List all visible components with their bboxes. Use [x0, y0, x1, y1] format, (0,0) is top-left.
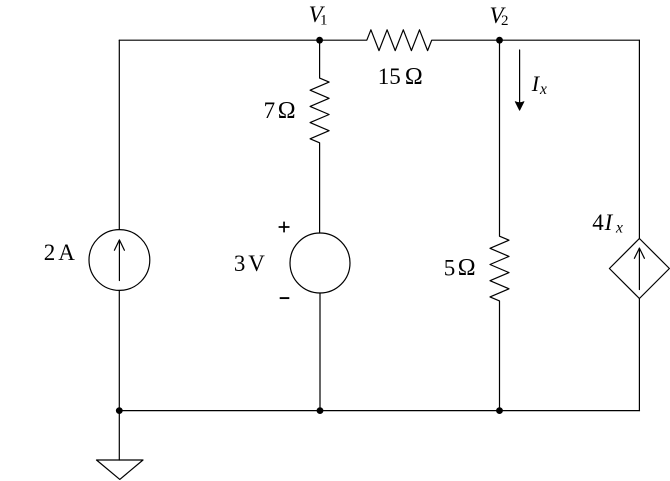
svg-text:x: x — [615, 220, 623, 237]
svg-text:Ω: Ω — [278, 98, 296, 124]
svg-text:4: 4 — [592, 210, 604, 235]
svg-text:Ω: Ω — [458, 255, 476, 281]
svg-text:x: x — [539, 81, 547, 98]
svg-text:I: I — [604, 210, 614, 235]
svg-text:1: 1 — [320, 13, 328, 29]
svg-text:2: 2 — [44, 240, 56, 265]
svg-text:V: V — [248, 251, 265, 276]
svg-text:3: 3 — [234, 251, 246, 276]
svg-text:Ω: Ω — [405, 64, 423, 90]
svg-text:5: 5 — [444, 255, 456, 280]
svg-text:A: A — [58, 240, 75, 265]
svg-text:2: 2 — [501, 13, 509, 29]
svg-text:7: 7 — [264, 98, 276, 123]
svg-text:15: 15 — [378, 64, 401, 89]
